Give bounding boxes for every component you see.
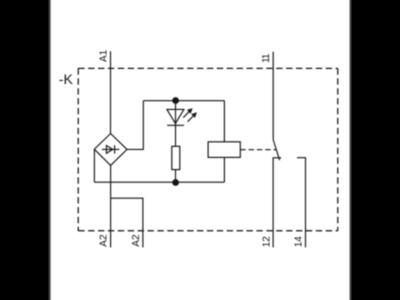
wire bridge DC+ to top rail [127, 101, 143, 150]
relay K dashed enclosure outline [78, 68, 338, 230]
wire resistor to bottom rail [175, 170, 177, 183]
svg-text:12: 12 [261, 236, 272, 248]
contact terminal 12 [273, 158, 281, 248]
wire bottom rail [94, 181, 224, 183]
wire A2 bridge jumper [111, 198, 143, 247]
svg-text:A1: A1 [98, 49, 109, 62]
wire coil bottom [223, 157, 225, 182]
svg-text:-K: -K [59, 71, 74, 87]
left black margin bar [0, 0, 52, 300]
LED indicator [167, 101, 197, 126]
right black margin bar [349, 0, 400, 300]
svg-text:14: 14 [293, 236, 304, 248]
wire 11 common [272, 52, 274, 140]
wire coil top [223, 101, 225, 142]
bridge rectifier V1 [94, 134, 127, 166]
svg-text:A2: A2 [131, 234, 142, 247]
wire LED to resistor [175, 125, 177, 146]
node junction dot (top) [172, 97, 179, 104]
resistor R1 [172, 146, 180, 169]
relay coil K [208, 142, 240, 158]
wire A1 stub [110, 51, 112, 133]
svg-text:11: 11 [261, 53, 272, 63]
contact blade [273, 140, 279, 160]
wire bridge DC- down [93, 149, 95, 182]
contact terminal 14 [297, 158, 306, 248]
actuator dashed link [240, 149, 276, 151]
svg-text:A2: A2 [99, 234, 110, 247]
node junction dot (bottom) [172, 179, 179, 186]
wire A2 from bridge AC2 [110, 165, 112, 247]
wire top rail [143, 100, 224, 102]
